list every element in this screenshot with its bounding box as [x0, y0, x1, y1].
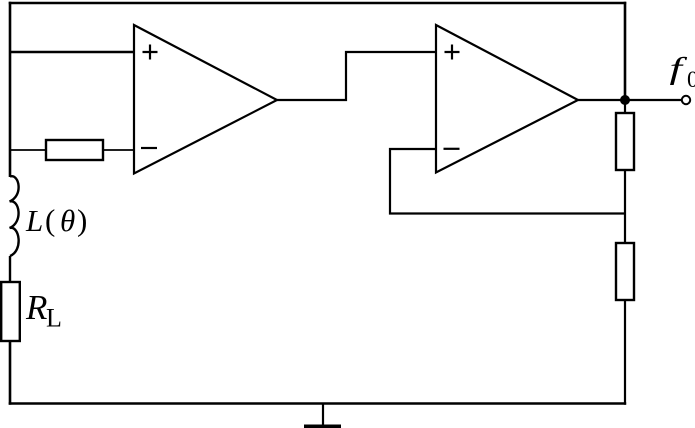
svg-text:): )	[77, 203, 87, 238]
wire left rail to resistor R2	[10, 149, 46, 151]
U1 plus sign	[143, 45, 158, 60]
resistor R1 (R_L, vertical)	[1, 282, 20, 341]
wire U1 output to U2 + input (step)	[277, 52, 436, 100]
op-amp U1	[134, 25, 277, 174]
wire inductor to resistor R1	[9, 256, 11, 282]
wire op-amp U1 + input	[10, 51, 134, 53]
svg-text:f: f	[670, 52, 689, 86]
wire R4 to bottom rail	[624, 300, 626, 405]
wire top rail	[9, 2, 626, 5]
wire junction to resistor R3	[624, 100, 626, 113]
wire right rail (top)	[624, 2, 627, 100]
wire left rail (top section)	[9, 2, 12, 177]
svg-text:R: R	[25, 288, 47, 327]
wire bottom rail	[9, 402, 627, 404]
ground bar	[304, 425, 341, 428]
inductor L(theta)	[10, 176, 19, 256]
wire U2 feedback (- input to right rail)	[390, 149, 626, 214]
svg-text:L: L	[46, 304, 62, 333]
svg-text:0: 0	[687, 67, 695, 92]
ground stem	[322, 404, 324, 426]
wire junction to output terminal	[625, 99, 682, 101]
resistor R4 (vertical, lower right)	[616, 243, 634, 300]
resistor R2 (horizontal, U1 inverting input)	[46, 140, 103, 160]
svg-text:θ: θ	[60, 203, 75, 238]
U1 minus sign	[141, 147, 157, 149]
wire R3 to R4	[624, 170, 626, 243]
svg-text:L: L	[25, 203, 43, 238]
node output junction	[620, 95, 630, 105]
resistor R3 (vertical, upper right)	[616, 113, 634, 170]
node output terminal (open circle)	[682, 96, 690, 104]
wire U2 output to junction	[578, 99, 625, 101]
U2 minus sign	[444, 148, 460, 150]
op-amp U2	[436, 25, 578, 173]
wire resistor R2 to U1 - input	[103, 149, 134, 151]
U2 plus sign	[445, 45, 460, 60]
wire R1 to bottom rail	[9, 341, 12, 405]
svg-text:(: (	[45, 203, 55, 238]
